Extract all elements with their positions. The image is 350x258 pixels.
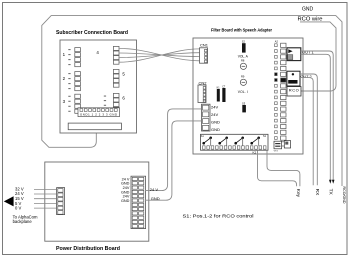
power distribution board outline: [45, 162, 149, 252]
svg-text:0 V: 0 V: [15, 206, 21, 211]
jumper K1: [217, 86, 221, 101]
svg-text:K2: K2: [253, 150, 257, 154]
potentiometer R8: [240, 58, 246, 69]
connector group 6: [104, 93, 126, 111]
switch S2: [242, 39, 246, 52]
svg-text:RCO/GND: RCO/GND: [342, 187, 346, 204]
connector group 5: [113, 69, 125, 87]
svg-text:GND1 1 2 2 3 3 GND: GND1 1 2 2 3 3 GND: [80, 113, 117, 117]
capacitor C7: [222, 85, 226, 102]
svg-text:OUT 2: OUT 2: [301, 75, 312, 79]
plug OUT1: [287, 48, 314, 61]
svg-text:S2: S2: [242, 39, 246, 43]
svg-text:RCO: RCO: [289, 87, 299, 92]
connector group 2: [63, 72, 81, 91]
connector group 1: [63, 48, 81, 67]
subscriber connection board outline: [56, 30, 137, 133]
svg-text:Filter Board with Speech Adapt: Filter Board with Speech Adapter: [211, 28, 272, 34]
svg-text:24V: 24V: [211, 112, 218, 117]
wire RCO: [300, 22, 336, 91]
switch block S1: [201, 134, 269, 154]
wire TX pair: [301, 51, 333, 180]
svg-text:GND: GND: [121, 199, 130, 203]
wire RX pair: [300, 74, 317, 185]
power input wires: [34, 190, 57, 209]
switch S1-3: [234, 137, 244, 146]
24V/GND terminal block: [202, 104, 221, 132]
svg-text:S3: S3: [242, 101, 246, 105]
power input connector: [57, 188, 65, 215]
svg-text:VOL. A: VOL. A: [238, 55, 249, 59]
switch S1-1: [202, 137, 212, 146]
edge connector: [68, 123, 121, 130]
svg-text:TX: TX: [328, 189, 334, 196]
svg-text:24V: 24V: [211, 105, 218, 110]
svg-text:Subscriber Connection Board: Subscriber Connection Board: [56, 30, 128, 36]
plug OUT2: [287, 71, 312, 86]
DIN connector J1 (dual column): [275, 40, 286, 147]
component VT3: [274, 141, 291, 153]
bottom pin row connector: [78, 108, 120, 117]
wire Key pair: [258, 150, 300, 186]
wire GND to filter board: [146, 121, 202, 200]
svg-text:CN1: CN1: [200, 43, 209, 48]
wire 24V to filter board: [146, 109, 202, 191]
switch S3: [242, 101, 246, 112]
svg-text:GND: GND: [151, 196, 160, 201]
connector group 4: [96, 46, 119, 64]
svg-text:A2: A2: [275, 40, 279, 44]
filter board outline: [193, 28, 303, 155]
power output connector: [131, 176, 146, 228]
svg-text:24 V: 24 V: [150, 187, 159, 192]
potentiometer R9: [240, 74, 246, 85]
svg-text:R8: R8: [241, 58, 245, 62]
svg-text:S1: Pos.1-2 for RCO control: S1: Pos.1-2 for RCO control: [183, 213, 254, 219]
RCO contact box: [287, 87, 301, 96]
TX arrowheads: [332, 180, 335, 184]
svg-text:Key: Key: [295, 189, 301, 198]
switch S1-4: [250, 137, 260, 146]
svg-text:VOL. I: VOL. I: [238, 90, 248, 94]
power output pin labels: [121, 177, 130, 203]
svg-text:backplane: backplane: [13, 219, 33, 224]
switch block pin row: [203, 146, 267, 149]
svg-text:RCO wire: RCO wire: [298, 17, 323, 23]
connector group 3: [63, 94, 81, 113]
wire GND loop (subscriber board to top-right): [42, 16, 342, 186]
connector CN2: [198, 80, 207, 102]
svg-text:GND: GND: [211, 120, 220, 125]
svg-text:RX: RX: [314, 189, 320, 196]
connector CN1: [200, 43, 209, 64]
svg-text:GND: GND: [211, 127, 220, 132]
svg-text:GND: GND: [302, 6, 314, 12]
backplane arrow: [4, 196, 14, 206]
svg-text:R9: R9: [241, 74, 245, 78]
svg-text:Power Distribution Board: Power Distribution Board: [56, 246, 120, 252]
wire bundle crossover (4 wires to CN1): [119, 48, 200, 62]
switch S1-2: [218, 137, 228, 146]
